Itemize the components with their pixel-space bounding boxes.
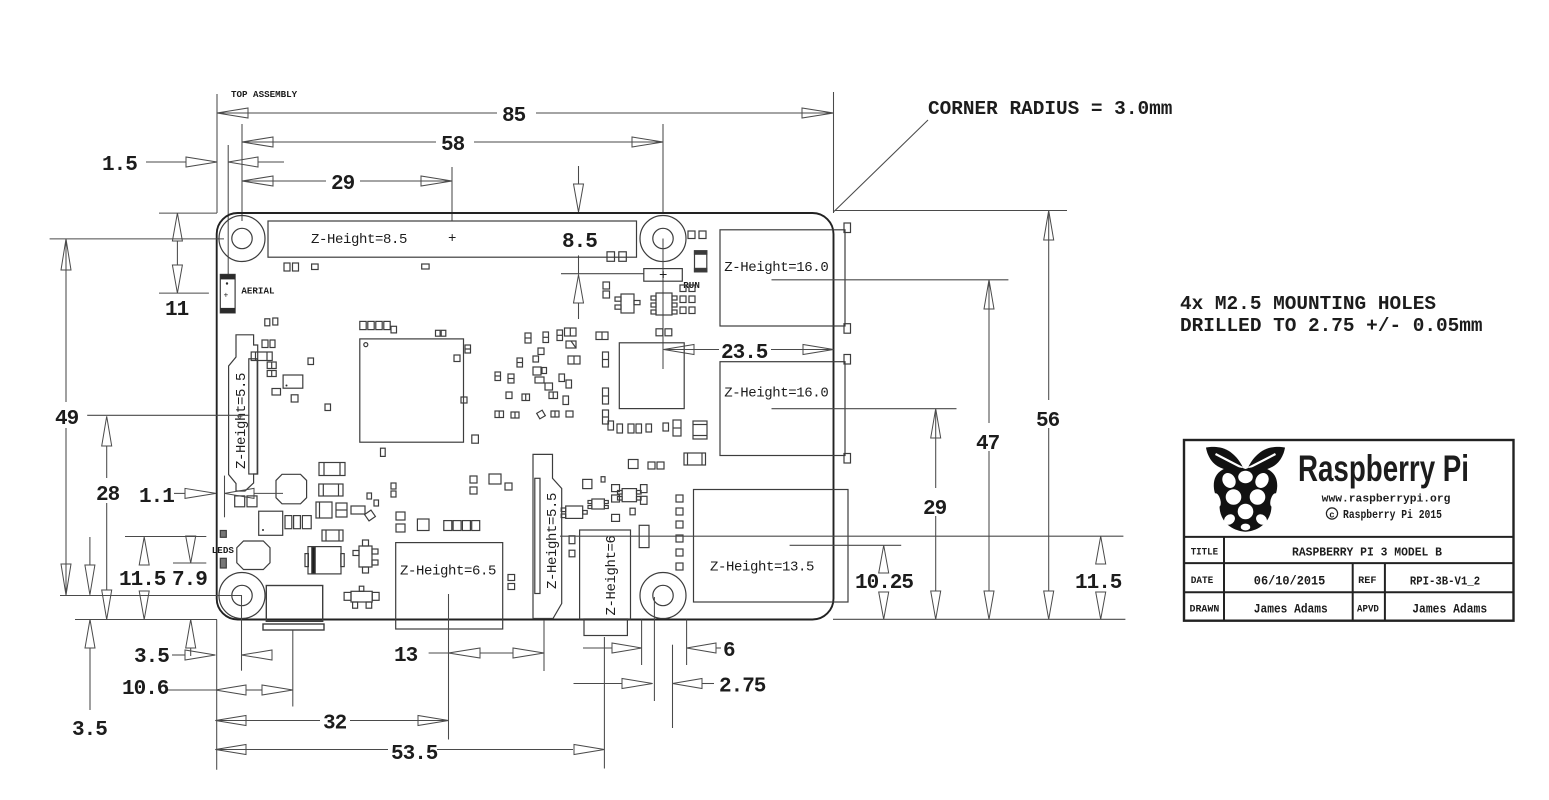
extension line hole right [662, 124, 664, 214]
title block column lines [1223, 537, 1225, 621]
dimension 49 arrow up [61, 239, 71, 270]
dimension 29 right arrow down [931, 591, 941, 619]
dimension 6 leader [583, 647, 612, 649]
dimension 32 line [215, 720, 320, 722]
SECTION: components [212, 221, 851, 636]
svg-text:58: 58 [441, 134, 465, 157]
svg-text:53.5: 53.5 [391, 743, 438, 766]
CSI camera connector (Z-Height=5.5) [533, 454, 562, 618]
dimension 10.6 arrows [215, 685, 246, 695]
dimension 29 arrow right [421, 176, 452, 186]
resistor pair right of Z6.5 box [508, 575, 515, 590]
dimension 10.25 arrow up [879, 545, 889, 573]
ethernet left pads column [676, 495, 683, 570]
centerline hole top-left horizontal [50, 238, 224, 240]
dimension 49 line [65, 239, 67, 402]
dimension 11.5 right arrow down [1096, 592, 1106, 619]
passives cluster bottom-left [235, 463, 396, 542]
leaf right [1247, 447, 1285, 471]
extension line 29 end [451, 167, 453, 221]
resistor pair above Z6.5 box [396, 474, 512, 532]
dimension 11.5 arrow down [139, 591, 149, 620]
svg-text:10.6: 10.6 [122, 678, 169, 701]
svg-text:RASPBERRY PI 3 MODEL B: RASPBERRY PI 3 MODEL B [1292, 546, 1442, 560]
dimension 49 arrow down [61, 564, 71, 595]
svg-text:3.5: 3.5 [134, 646, 169, 669]
svg-text:+: + [659, 268, 667, 284]
svg-text:DRAWN: DRAWN [1190, 605, 1220, 616]
dimension 1.5 trailing line [258, 161, 284, 163]
dimension 7.9 arrow down (top) [186, 536, 196, 563]
board outline [217, 213, 834, 620]
svg-text:AERIAL: AERIAL [241, 286, 275, 297]
passives pair below GPIO left [284, 263, 429, 271]
svg-text:Z-Height=5.5: Z-Height=5.5 [545, 493, 561, 589]
passives cluster left of SoC [251, 318, 330, 411]
svg-text:11: 11 [165, 299, 189, 322]
SECTION: notes [834, 98, 1483, 337]
capacitor right edge upper [673, 420, 707, 439]
dimension 58 arrow right [632, 137, 663, 147]
dimension 29 right line [935, 410, 937, 488]
dimension 11.5 arrow up [139, 537, 149, 565]
dimension 29 arrow left [242, 176, 273, 186]
aux arrow down x=89.9 [85, 565, 95, 595]
dimension 47 line [988, 281, 990, 423]
svg-text:Z-Height=5.5: Z-Height=5.5 [234, 373, 250, 469]
capacitor right edge lower [684, 453, 706, 465]
svg-text:47: 47 [976, 433, 1000, 456]
audio/video jack octagon upper [276, 474, 307, 504]
svg-text:1.5: 1.5 [102, 154, 137, 177]
svg-text:www.raspberrypi.org: www.raspberrypi.org [1322, 494, 1451, 506]
dimension 85 arrow right [802, 108, 834, 118]
dimension 8.5 arrow up [578, 255, 580, 274]
svg-text:Z-Height=6: Z-Height=6 [604, 535, 620, 615]
dimension 2.75 leader [574, 683, 623, 685]
GPIO header J8 [268, 221, 637, 257]
dimension 13 arrows [449, 648, 481, 658]
mounting hole bottom-left drill [232, 585, 252, 605]
svg-text:23.5: 23.5 [721, 342, 768, 365]
copyright symbol [1326, 508, 1337, 519]
dimension 11.5 ref line [125, 536, 206, 538]
svg-text:28: 28 [96, 484, 120, 507]
11.5 ref crossing line [560, 535, 1123, 537]
dimension 3.5 left arrow up [85, 620, 95, 649]
micro USB data connector (Z-Height=6.5) [396, 543, 503, 629]
SECTION: dims right [560, 211, 1123, 620]
corner radius leader line [834, 120, 928, 212]
transistor SOT-23 bottom-left [344, 586, 379, 608]
extension line right board edge top [833, 92, 835, 213]
dimension 32 arrows [215, 716, 246, 726]
title block row lines [1184, 536, 1514, 538]
dimension 28 line [106, 446, 108, 478]
leaf vein right [1248, 453, 1276, 469]
svg-text:DATE: DATE [1191, 576, 1214, 587]
SECTION: board [50, 211, 1126, 770]
dimension 53.5 arrows [215, 745, 246, 755]
leaf vein left [1215, 453, 1243, 469]
dimension 47 arrow up [984, 280, 994, 309]
passives pair near hole top-right [607, 231, 706, 261]
micro-USB power connector [263, 586, 324, 631]
svg-text:Raspberry Pi: Raspberry Pi [1298, 448, 1469, 489]
passives between CSI and HDMI [569, 477, 605, 557]
resistor below SoC [381, 448, 386, 456]
wifi module passives cluster [454, 328, 580, 420]
extension tick aerial line [227, 145, 229, 274]
AERIAL antenna [220, 274, 235, 313]
extension line csi center [543, 620, 545, 671]
svg-text:James Adams: James Adams [1254, 603, 1328, 617]
svg-text:1.1: 1.1 [139, 486, 174, 509]
HDMI connector (Z-Height=6) [580, 530, 631, 636]
dimension 11.5 right arrow up [1096, 536, 1106, 564]
svg-text:TOP ASSEMBLY: TOP ASSEMBLY [231, 89, 298, 100]
dimension 58 line [242, 141, 436, 143]
transistor cluster above HDMI [561, 485, 649, 548]
svg-text:06/10/2015: 06/10/2015 [1254, 575, 1326, 589]
board left edge extension bottom [216, 620, 218, 770]
ethernet leader / 10.25 ref line [790, 544, 902, 546]
dimension 7.9 ref line [173, 562, 206, 564]
dimension 3.5 leader [172, 654, 185, 656]
board bottom edge extension right [833, 618, 1125, 620]
SoC pin1 dot [364, 343, 368, 347]
RUN header resistor [644, 269, 683, 282]
dimension 1.1 trailing line to octagon [254, 492, 283, 494]
svg-text:56: 56 [1036, 410, 1060, 433]
LEDs [220, 531, 226, 569]
passives row below LAN chip [608, 421, 669, 433]
dimension 58 arrow left [242, 137, 273, 147]
centerline hole bottom-left vertical [241, 596, 243, 671]
resistor right of SoC [472, 435, 479, 443]
svg-text:APVD: APVD [1357, 605, 1379, 616]
dimension 1.5 arrow right [228, 157, 258, 167]
dimension 1.1 leader [174, 492, 185, 494]
extension line micro-usb center [448, 594, 450, 740]
regulator 5-pin bottom-left [353, 540, 378, 573]
svg-text:+: + [224, 292, 229, 301]
extension line usb power center [292, 631, 294, 707]
dimension 1.1 tick [224, 476, 226, 518]
dimension 1.1 arrow right [225, 488, 255, 498]
dimension 28 arrow down [102, 590, 112, 620]
Ethernet connector (Z-Height=13.5) [694, 490, 849, 603]
berry body [1214, 467, 1277, 532]
svg-text:11.5: 11.5 [119, 569, 166, 592]
svg-text:8.5: 8.5 [562, 231, 597, 254]
svg-text:Z-Height=8.5: Z-Height=8.5 [311, 232, 407, 248]
mounting hole bottom-left pad [219, 573, 265, 619]
capacitor near RUN [695, 251, 707, 272]
board bottom edge extension left [75, 619, 217, 621]
SECTION: dimensions top [102, 89, 834, 319]
svg-text:29: 29 [923, 498, 947, 521]
dimension 23.5 dim line [664, 349, 719, 351]
svg-text:32: 32 [323, 713, 347, 736]
USB connector top (Z-Height=16.0) [720, 223, 851, 333]
aux line x=89.9 [89, 537, 91, 565]
dimension 85 line [217, 112, 497, 114]
dimension 23.5 arrow left [664, 345, 694, 355]
dimension 10.25 arrow down [879, 592, 889, 619]
SOIC chip U3 bottom center [618, 460, 665, 502]
extension line hdmi center [603, 637, 605, 769]
svg-text:DRILLED TO 2.75 +/- 0.05mm: DRILLED TO 2.75 +/- 0.05mm [1180, 315, 1483, 337]
dimension 3.5 arrow left [242, 650, 273, 660]
electrolytic capacitor C1 [305, 547, 344, 574]
dimension 11 arrow up [172, 213, 182, 241]
svg-text:Z-Height=13.5: Z-Height=13.5 [710, 560, 814, 576]
board top edge extension to 56 ref [835, 210, 1068, 212]
extension lines 6 [641, 620, 643, 666]
svg-text:+: + [448, 231, 456, 247]
dimension 10.6 leader [168, 689, 215, 691]
transistor Q1 cluster below RUN [603, 282, 695, 336]
svg-text:49: 49 [55, 408, 79, 431]
USB connector bottom (Z-Height=16.0) [720, 355, 851, 464]
svg-text:6: 6 [723, 640, 735, 663]
svg-text:RPI-3B-V1_2: RPI-3B-V1_2 [1410, 575, 1480, 589]
dimension 6 arrow right [612, 643, 642, 653]
mounting hole top-right drill [653, 228, 673, 248]
raspberry logo [1206, 447, 1285, 532]
berry holes [1212, 471, 1278, 531]
USB2 leader / 29 ref line [772, 408, 957, 410]
dimension 56 arrow down [1044, 591, 1054, 619]
extension lines 2.75 [653, 597, 655, 701]
extension line left board edge top [216, 94, 218, 213]
mounting hole top-right pad [640, 216, 686, 262]
svg-text:LEDS: LEDS [212, 545, 235, 556]
dimension 29 line [242, 180, 326, 182]
dimension 53.5 line [215, 749, 388, 751]
board top edge extension left [159, 212, 217, 214]
dimension 47 arrow down [984, 591, 994, 619]
svg-text:Raspberry Pi 2015: Raspberry Pi 2015 [1343, 509, 1442, 522]
passives between wifi and LAN [596, 332, 609, 424]
dimension 11 line [176, 241, 178, 265]
DSI display connector [229, 335, 258, 491]
LAN9514 chip U2 [619, 343, 684, 409]
svg-text:13: 13 [394, 645, 418, 668]
dimension 11 arrow down [172, 265, 182, 293]
svg-text:7.9: 7.9 [172, 569, 207, 592]
SECTION: dims bottom [122, 594, 766, 769]
svg-text:Z-Height=16.0: Z-Height=16.0 [724, 386, 828, 402]
mounting hole bottom-right pad [640, 573, 686, 619]
svg-text:James Adams: James Adams [1412, 603, 1487, 617]
dimension 3.5 arrow right [185, 650, 215, 660]
svg-text:TITLE: TITLE [1191, 548, 1218, 559]
dimension 1.5 arrow left [186, 157, 217, 167]
dimension 56 arrow up [1044, 211, 1054, 241]
dimension 7.9 arrow up (bottom) [186, 620, 196, 649]
title block outer frame [1184, 440, 1514, 621]
svg-text:4x M2.5 MOUNTING HOLES: 4x M2.5 MOUNTING HOLES [1180, 293, 1436, 315]
leaf left [1206, 447, 1244, 471]
dimension 56 line [1048, 212, 1050, 400]
dimension 8.5 arrow down [574, 184, 584, 212]
SECTION: dims left [55, 213, 283, 742]
capacitor row above SoC [360, 321, 446, 336]
leader line to RUN resistor [561, 273, 644, 275]
dimension 6 arrow left [687, 643, 716, 653]
extension line hole left [241, 124, 243, 221]
dimension 85 arrow left [217, 108, 248, 118]
svg-text:2.75: 2.75 [719, 676, 766, 699]
dimension 11 ref line [159, 292, 209, 294]
svg-text:29: 29 [331, 173, 355, 196]
dimension 2.75 arrow right [622, 679, 653, 689]
SoC BCM2837 U1 [360, 339, 464, 442]
SECTION: titleblock [1184, 440, 1514, 621]
dimension 13 leader [429, 652, 449, 654]
svg-text:Z-Height=6.5: Z-Height=6.5 [400, 564, 496, 580]
dimension 29 right arrow up [931, 409, 941, 438]
dimension 1.1 arrow left [185, 488, 216, 498]
svg-text:CORNER RADIUS = 3.0mm: CORNER RADIUS = 3.0mm [928, 98, 1172, 120]
svg-text:Z-Height=16.0: Z-Height=16.0 [724, 260, 828, 276]
dimension 28 arrow up [102, 416, 112, 446]
dimension 2.75 arrow left [673, 679, 703, 689]
dimension 1.5 leader left [146, 161, 186, 163]
svg-text:c: c [1329, 510, 1334, 520]
mounting hole top-left drill [232, 228, 252, 248]
centerline hole bottom-left horizontal [60, 595, 242, 597]
svg-text:REF: REF [1358, 576, 1376, 587]
svg-text:85: 85 [502, 105, 526, 128]
USB1 leader / 47 ref line [772, 279, 1009, 281]
jack octagon lower [237, 541, 270, 570]
mounting hole top-left pad [219, 216, 265, 262]
dimension 23.5 arrow right [803, 345, 834, 355]
svg-text:3.5: 3.5 [72, 719, 107, 742]
mounting hole bottom-right drill [653, 585, 673, 605]
dimension 28 ref line to DSI [87, 414, 249, 416]
centerline hole top-right vertical [662, 239, 664, 370]
